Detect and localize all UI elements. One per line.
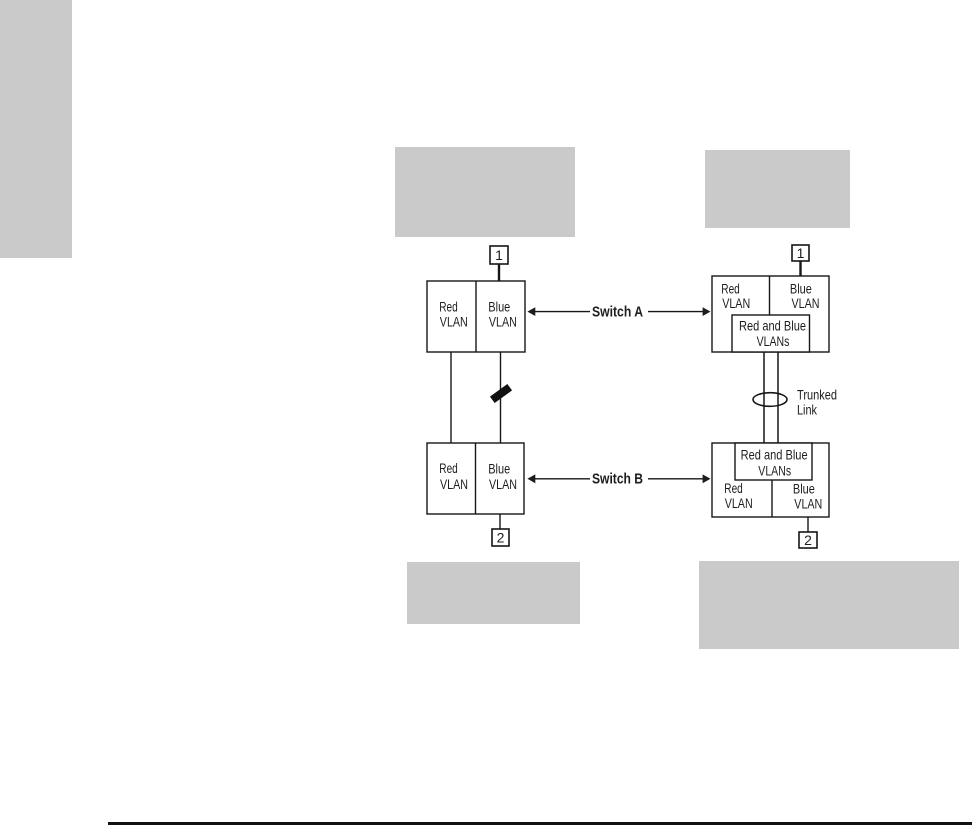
- divider Red/Blue (right Switch A): [769, 276, 771, 315]
- divider Red/Blue (left Switch A): [475, 281, 477, 352]
- label Blue VLAN (left Switch B): [488, 460, 517, 492]
- broken link symbol: [490, 384, 512, 403]
- svg-text:VLAN: VLAN: [725, 495, 753, 511]
- trunk ellipse: [753, 393, 787, 407]
- wire to node 2 (left): [499, 514, 501, 529]
- svg-text:Blue: Blue: [793, 481, 815, 497]
- svg-text:VLAN: VLAN: [489, 314, 517, 330]
- svg-text:VLANs: VLANs: [757, 333, 790, 349]
- svg-text:Switch B: Switch B: [592, 470, 643, 487]
- arrow pointing left at Switch B box (left): [527, 474, 590, 483]
- svg-text:Blue: Blue: [488, 460, 510, 476]
- Switch A box (right diagram): [712, 276, 829, 352]
- node 2 callout box (left diagram): [492, 529, 509, 546]
- svg-text:Red and Blue: Red and Blue: [739, 317, 806, 333]
- label Red and Blue VLANs (right Switch B): [741, 447, 808, 479]
- svg-text:VLAN: VLAN: [722, 295, 750, 311]
- caption block bottom-right (gray placeholder): [699, 561, 959, 649]
- svg-text:2: 2: [497, 530, 505, 546]
- svg-text:VLAN: VLAN: [440, 476, 468, 492]
- Switch B box (left diagram): [427, 443, 524, 514]
- svg-text:Switch A: Switch A: [592, 304, 643, 321]
- arrow pointing right at Switch B box (right): [648, 474, 711, 483]
- svg-text:Red: Red: [724, 480, 743, 496]
- svg-text:Red: Red: [439, 299, 458, 315]
- svg-text:1: 1: [797, 245, 805, 261]
- svg-text:VLAN: VLAN: [440, 314, 468, 330]
- label Blue VLAN (left Switch A): [488, 299, 517, 330]
- node 1 callout box (right diagram): [792, 245, 809, 261]
- wire from node 1 to Switch A (right): [799, 261, 801, 276]
- label Red VLAN (left Switch B): [439, 460, 468, 492]
- divider Red/Blue (left Switch B): [475, 443, 477, 514]
- trunk wire right: [777, 352, 779, 443]
- label Red and Blue VLANs (right Switch A): [739, 317, 806, 349]
- arrow pointing left at Switch A box (left): [527, 307, 590, 316]
- svg-text:VLAN: VLAN: [489, 476, 517, 492]
- caption block top-right (gray placeholder): [705, 150, 850, 228]
- svg-text:1: 1: [495, 247, 503, 263]
- label Blue VLAN (right Switch B): [793, 481, 822, 512]
- trunk wire left: [763, 352, 765, 443]
- wire Red VLAN link (left): [450, 352, 452, 443]
- svg-text:Red and Blue: Red and Blue: [741, 447, 808, 463]
- arrow pointing right at Switch A box (right): [648, 307, 711, 316]
- wire to node 2 (right): [807, 517, 809, 532]
- label Trunked Link: [797, 387, 837, 418]
- svg-text:Link: Link: [797, 402, 818, 418]
- svg-text:VLAN: VLAN: [792, 295, 820, 311]
- Switch A box (left diagram): [427, 281, 525, 352]
- wire from node 1 to Switch A (left): [498, 264, 500, 281]
- label Red VLAN (right Switch B): [724, 480, 752, 511]
- caption block bottom-left (gray placeholder): [407, 562, 580, 624]
- svg-text:VLAN: VLAN: [794, 495, 822, 511]
- Switch B box (right diagram): [712, 443, 829, 517]
- label Blue VLAN (right Switch A): [790, 281, 820, 312]
- label Red VLAN (left Switch A): [439, 299, 468, 330]
- wire Blue VLAN link (left): [500, 352, 502, 443]
- caption block top-left (gray placeholder): [395, 147, 575, 237]
- svg-text:Red: Red: [439, 460, 458, 476]
- sub-box Red and Blue VLANs (right Switch A): [732, 315, 810, 352]
- svg-text:VLANs: VLANs: [758, 462, 791, 478]
- sub-box Red and Blue VLANs (right Switch B): [735, 443, 812, 480]
- footer rule: [108, 822, 972, 825]
- node 1 callout box (left diagram): [490, 246, 508, 264]
- left margin tab (gray placeholder): [0, 0, 72, 258]
- label Red VLAN (right Switch A): [721, 281, 750, 312]
- svg-text:2: 2: [804, 532, 812, 548]
- svg-text:Trunked: Trunked: [797, 387, 837, 403]
- node 2 callout box (right diagram): [799, 532, 817, 548]
- divider Red/Blue (right Switch B): [771, 480, 773, 517]
- svg-text:Blue: Blue: [488, 299, 510, 315]
